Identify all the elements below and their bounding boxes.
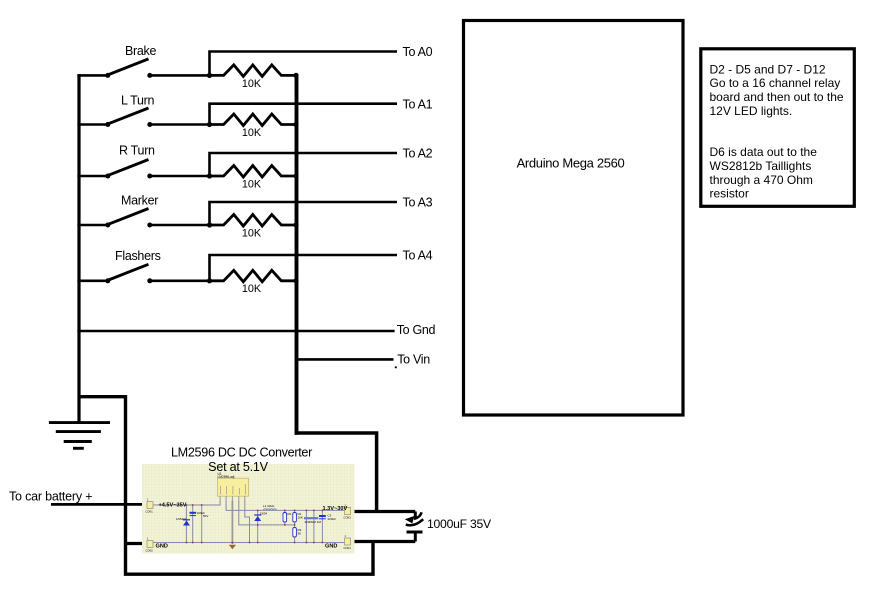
svg-text:GND: GND [325, 543, 337, 549]
svg-text:D6 is data out to the: D6 is data out to the [710, 145, 818, 159]
module diode D1 [183, 521, 190, 526]
module gnd pad left [147, 541, 153, 548]
svg-text:10K: 10K [242, 78, 262, 90]
switch S3 R Turn [77, 144, 212, 179]
svg-text:To A3: To A3 [403, 196, 433, 210]
module ground arrow [229, 545, 236, 549]
svg-text:220uF: 220uF [328, 517, 337, 521]
svg-text:Flashers: Flashers [115, 249, 161, 263]
resistor R5 10K [210, 270, 299, 295]
svg-text:board and then out to the: board and then out to the [710, 90, 844, 104]
svg-text:D2 - D5 and D7 - D12: D2 - D5 and D7 - D12 [710, 62, 826, 76]
switch S1 Brake [77, 44, 212, 78]
svg-text:To A0: To A0 [403, 45, 433, 59]
svg-text:To A1: To A1 [403, 97, 433, 111]
wire right bus vertical [295, 74, 299, 435]
svg-text:Arduino Mega 2560: Arduino Mega 2560 [517, 156, 625, 171]
svg-text:10K: 10K [242, 227, 262, 239]
svg-text:To Vin: To Vin [397, 352, 430, 366]
switch S5 Flashers [77, 249, 212, 283]
svg-text:1N5407: 1N5407 [176, 517, 187, 521]
svg-text:CON4: CON4 [344, 546, 352, 550]
module gnd rail [153, 542, 345, 544]
wire riser to A3 [210, 202, 398, 225]
switch S2 L Turn [77, 94, 212, 128]
ground [49, 423, 110, 449]
svg-text:To Gnd: To Gnd [397, 323, 436, 337]
svg-text:12V LED lights.: 12V LED lights. [710, 104, 793, 118]
svg-text:SS34: SS34 [260, 512, 268, 516]
wire battery to converter input [51, 503, 148, 506]
svg-text:1000uF 35V: 1000uF 35V [427, 517, 492, 531]
resistor R1 10K [210, 65, 299, 90]
note box D2-D12 [701, 49, 855, 207]
svg-text:L Turn: L Turn [121, 94, 155, 108]
module diode D2 [254, 516, 261, 521]
svg-text:10K: 10K [298, 516, 303, 520]
svg-text:Go to a 16 channel relay: Go to a 16 channel relay [710, 76, 841, 90]
module cap C_out [319, 515, 326, 517]
svg-text:LM2596-adj: LM2596-adj [218, 475, 235, 479]
svg-text:CON1: CON1 [146, 510, 154, 514]
resistor R4 10K [210, 215, 299, 240]
svg-text:Set at 5.1V: Set at 5.1V [208, 460, 269, 474]
wire converter gnd out [350, 540, 415, 543]
svg-text:10K: 10K [242, 283, 262, 295]
module IC LM2596 [218, 478, 249, 496]
capacitor C1 1000uF 35V [405, 512, 492, 542]
module cap C_in [190, 512, 197, 514]
dc-dc converter module LM2596 board image [142, 464, 355, 554]
resistor R3 10K [210, 166, 299, 191]
module inductor L1 [264, 509, 277, 511]
module resistor Rb [293, 513, 297, 523]
svg-text:Brake: Brake [125, 44, 157, 58]
svg-text:50V: 50V [203, 514, 208, 518]
svg-text:R Turn: R Turn [119, 144, 155, 158]
module input pad [147, 502, 153, 509]
wire riser to A1 [210, 104, 398, 125]
svg-text:3K: 3K [298, 532, 302, 536]
switch S4 Marker [77, 194, 212, 228]
wire To Vin line [297, 358, 394, 361]
svg-text:GND: GND [156, 543, 168, 549]
module resistor Rc [293, 528, 297, 538]
module feedback rail [239, 501, 295, 525]
module input wire [153, 501, 220, 506]
svg-text:Marker: Marker [121, 194, 158, 208]
module cap bar mid [304, 517, 318, 519]
svg-text:1.3V~30V: 1.3V~30V [323, 506, 348, 512]
wire bus corner down to converter output [295, 433, 377, 512]
svg-text:+4.5V~35V: +4.5V~35V [159, 502, 187, 508]
svg-text:L1 33uH: L1 33uH [263, 504, 274, 508]
module gnd pad right [345, 538, 351, 545]
svg-text:CON3: CON3 [344, 516, 352, 520]
wire branch to bottom loop [79, 397, 373, 575]
svg-text:10K: 10K [242, 127, 262, 139]
svg-text:CON2: CON2 [146, 549, 154, 553]
svg-text:LM2596 DC DC Converter: LM2596 DC DC Converter [171, 445, 312, 459]
svg-text:resistor: resistor [710, 187, 749, 201]
module component drops [185, 505, 187, 543]
wire gnd stub to converter [124, 542, 148, 545]
wire riser to A2 [210, 153, 398, 176]
wire converter output [350, 510, 415, 513]
module junction dots [186, 504, 324, 543]
module IC gnd drop [231, 501, 233, 545]
svg-text:To A2: To A2 [403, 147, 433, 161]
wire riser to A4 [210, 255, 398, 281]
wire riser to A0 [210, 52, 398, 76]
wire To Gnd line [77, 330, 394, 333]
svg-text:10K: 10K [242, 178, 262, 190]
resistor R2 10K [210, 114, 299, 139]
arduino U1 Arduino Mega 2560 [464, 21, 684, 416]
svg-text:WS2812b Taillights: WS2812b Taillights [710, 159, 812, 173]
svg-text:To car battery +: To car battery + [9, 490, 92, 504]
module resistor Ra [283, 513, 287, 523]
module pin5 drop [245, 501, 250, 543]
wire left bus vertical [77, 74, 80, 423]
module output pad [345, 508, 351, 515]
svg-text:220MHZ 1M: 220MHZ 1M [305, 520, 322, 524]
svg-text:To A4: To A4 [403, 249, 433, 263]
svg-text:through a 470 Ohm: through a 470 Ohm [710, 173, 813, 187]
module output wire [226, 501, 344, 511]
svg-text:R1: R1 [288, 512, 292, 516]
